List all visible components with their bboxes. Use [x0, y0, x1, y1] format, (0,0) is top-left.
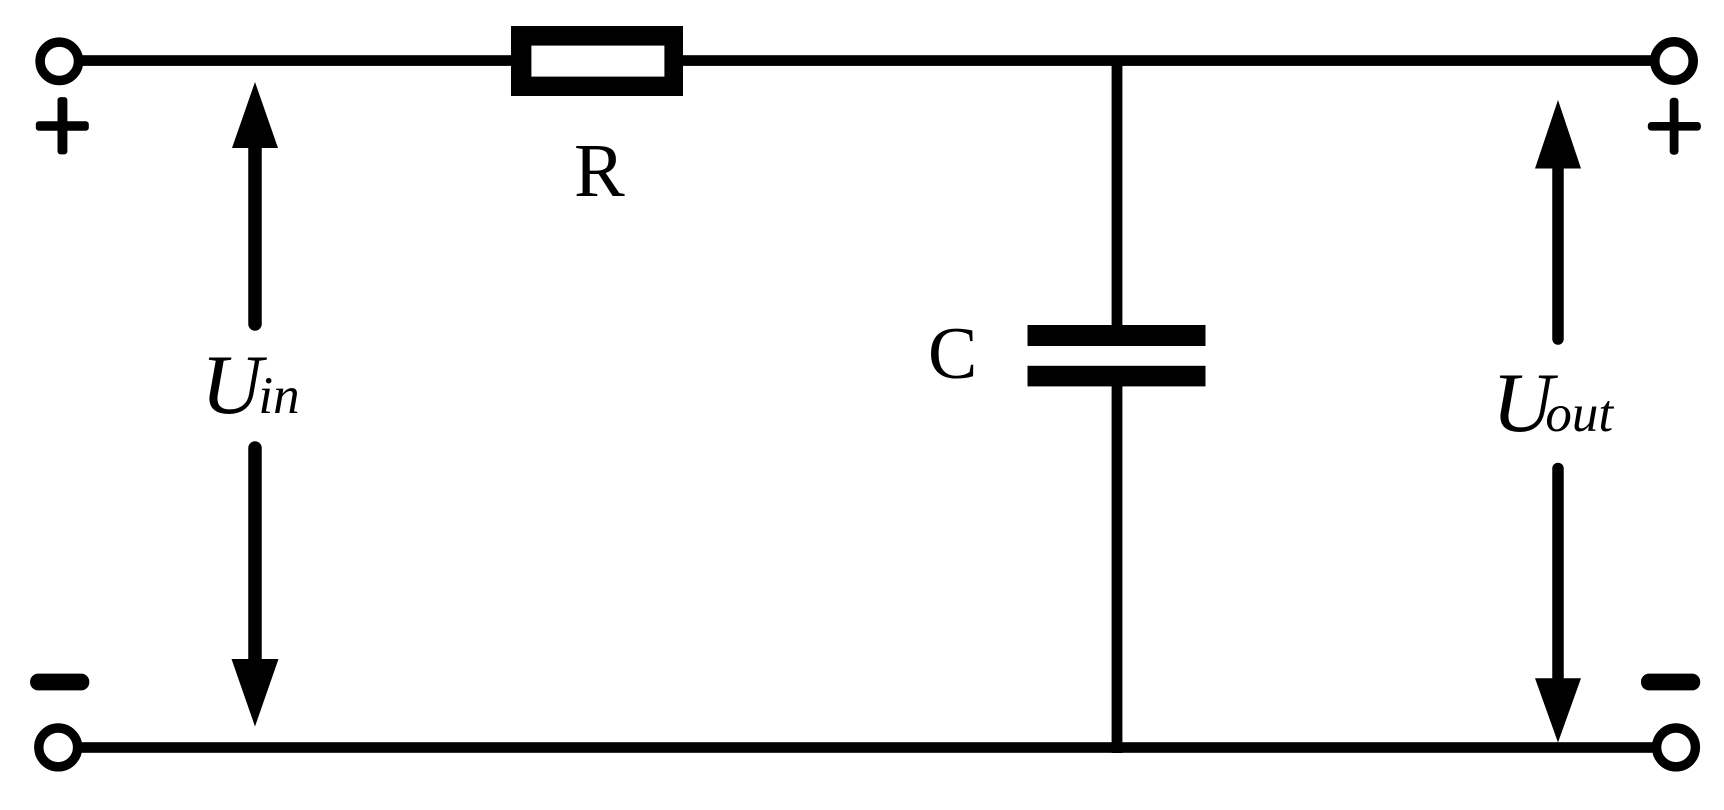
svg-text:C: C [928, 313, 977, 395]
svg-text:R: R [574, 129, 625, 213]
